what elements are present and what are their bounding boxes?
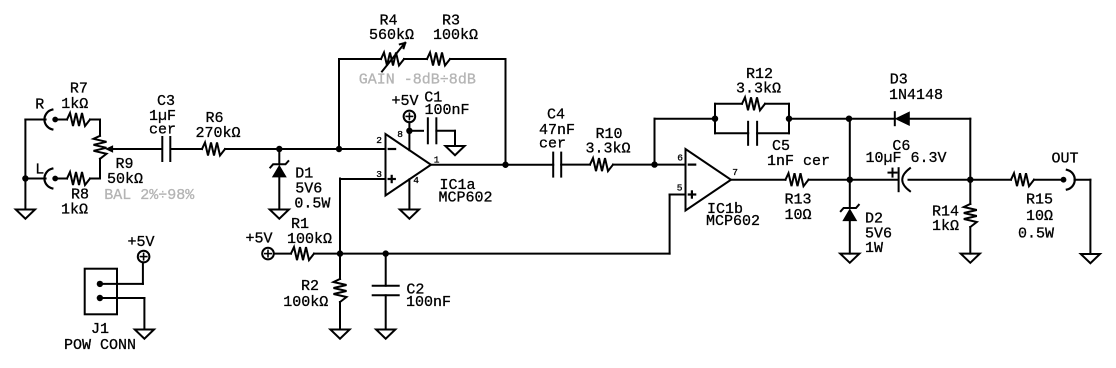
svg-text:1kΩ: 1kΩ xyxy=(61,202,88,219)
svg-text:50kΩ: 50kΩ xyxy=(107,171,143,188)
svg-text:270kΩ: 270kΩ xyxy=(196,125,241,142)
svg-text:+5V: +5V xyxy=(246,231,273,248)
svg-text:1kΩ: 1kΩ xyxy=(932,218,959,235)
svg-text:100kΩ: 100kΩ xyxy=(287,231,332,248)
svg-text:100kΩ: 100kΩ xyxy=(283,294,328,311)
svg-text:MCP602: MCP602 xyxy=(439,190,493,207)
svg-text:cer: cer xyxy=(539,136,566,153)
svg-text:J1: J1 xyxy=(91,321,109,338)
svg-text:3.3kΩ: 3.3kΩ xyxy=(586,140,631,157)
svg-text:2: 2 xyxy=(376,135,382,146)
svg-text:MCP602: MCP602 xyxy=(706,213,760,230)
svg-text:10Ω: 10Ω xyxy=(1026,208,1053,225)
svg-text:8: 8 xyxy=(397,129,403,140)
svg-text:7: 7 xyxy=(732,167,738,178)
svg-text:10µF 6.3V: 10µF 6.3V xyxy=(866,150,947,167)
svg-text:1W: 1W xyxy=(865,240,883,257)
svg-text:3: 3 xyxy=(376,169,382,180)
svg-text:L: L xyxy=(35,162,44,179)
svg-text:0.5W: 0.5W xyxy=(1018,225,1054,242)
svg-text:+5V: +5V xyxy=(128,234,155,251)
svg-text:POW CONN: POW CONN xyxy=(64,337,136,354)
svg-text:6: 6 xyxy=(677,153,683,164)
svg-text:10Ω: 10Ω xyxy=(785,207,812,224)
svg-text:R: R xyxy=(35,97,44,114)
svg-text:1N4148: 1N4148 xyxy=(889,87,943,104)
svg-text:R7: R7 xyxy=(70,80,88,97)
svg-text:560kΩ: 560kΩ xyxy=(369,27,414,44)
svg-text:4: 4 xyxy=(413,175,419,186)
svg-text:R13: R13 xyxy=(785,192,812,209)
svg-text:1nF cer: 1nF cer xyxy=(767,153,830,170)
svg-text:cer: cer xyxy=(149,122,176,139)
svg-text:GAIN -8dB÷8dB: GAIN -8dB÷8dB xyxy=(359,72,476,89)
svg-text:OUT: OUT xyxy=(1052,150,1079,167)
svg-text:5: 5 xyxy=(677,183,683,194)
svg-text:3.3kΩ: 3.3kΩ xyxy=(736,80,781,97)
svg-text:0.5W: 0.5W xyxy=(294,196,330,213)
svg-text:BAL 2%÷98%: BAL 2%÷98% xyxy=(104,187,195,204)
svg-text:+5V: +5V xyxy=(392,93,419,110)
svg-text:1kΩ: 1kΩ xyxy=(61,96,88,113)
svg-text:100nF: 100nF xyxy=(425,102,470,119)
svg-text:R15: R15 xyxy=(1026,192,1053,209)
svg-text:R2: R2 xyxy=(301,278,319,295)
svg-text:100nF: 100nF xyxy=(406,294,451,311)
svg-text:100kΩ: 100kΩ xyxy=(433,27,478,44)
svg-text:1: 1 xyxy=(434,155,440,166)
